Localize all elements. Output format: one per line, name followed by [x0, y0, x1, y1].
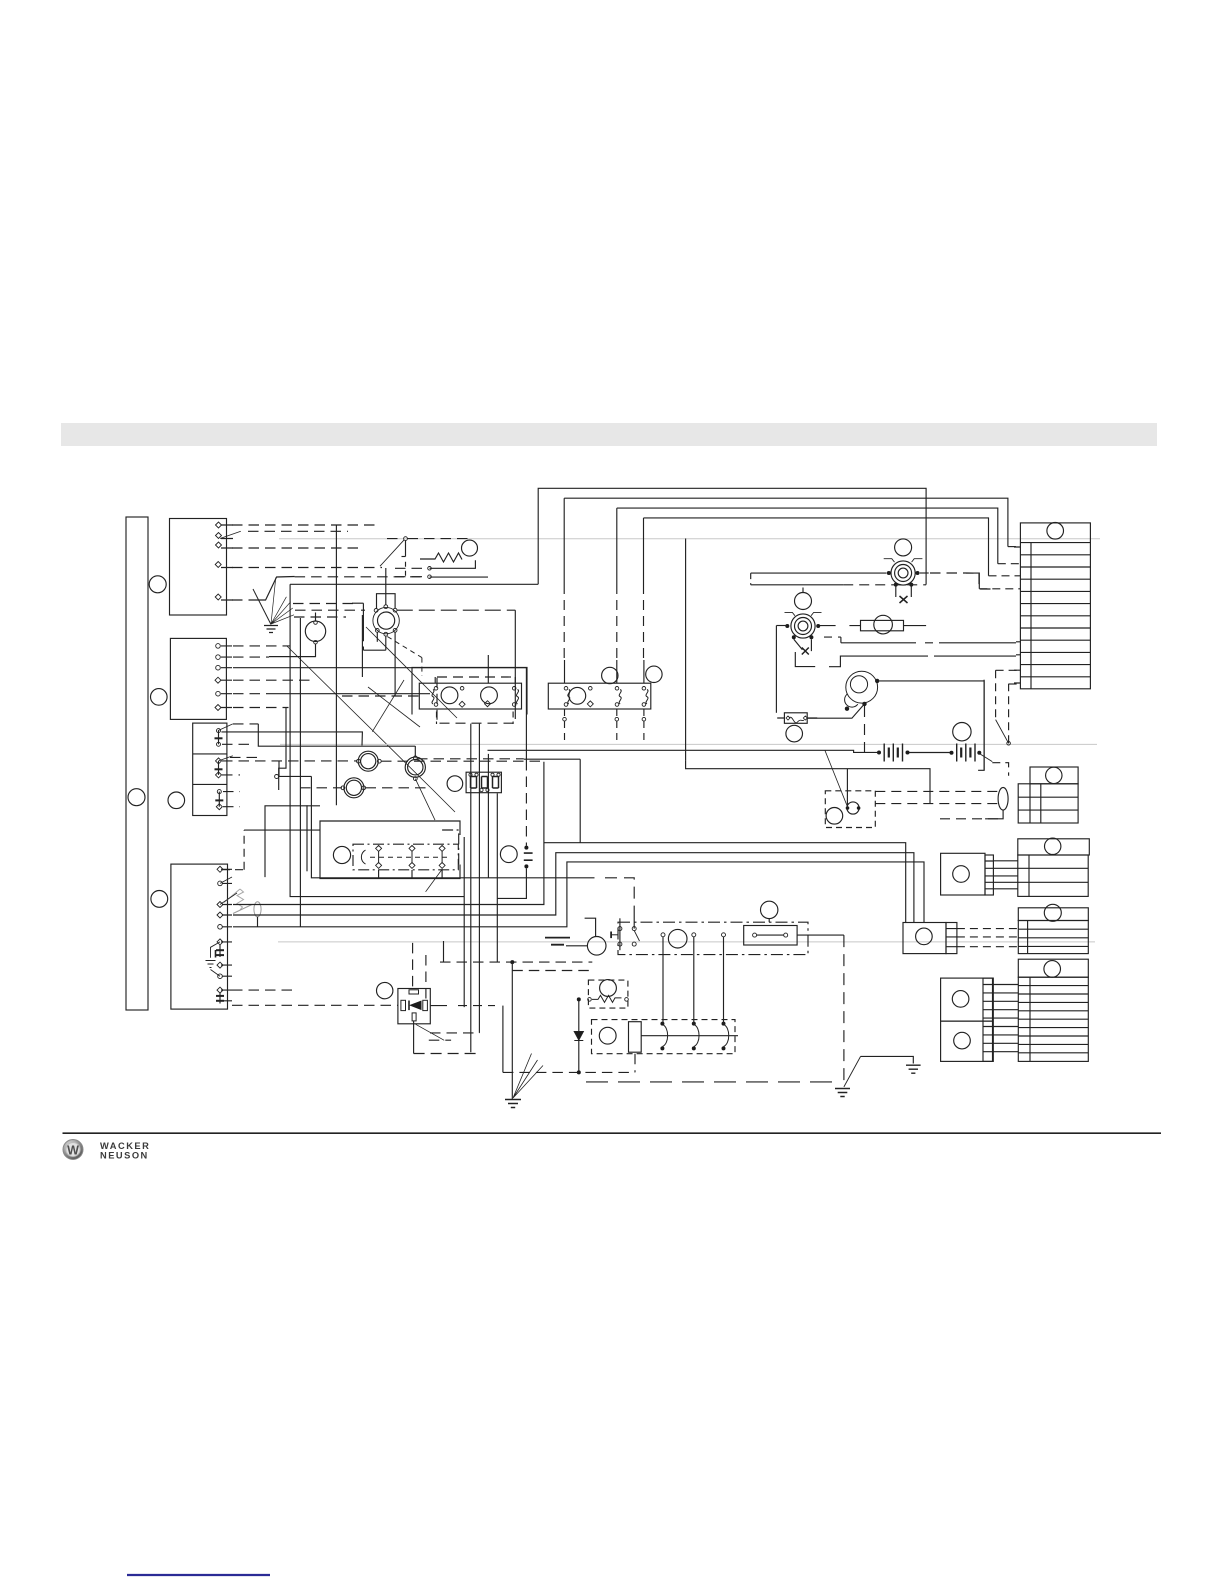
ignition switch PCB (dash-dot): [353, 844, 458, 870]
ground lead G3 riser: [843, 935, 845, 1087]
wire x288 down: [279, 708, 286, 791]
starter switch S: [585, 918, 640, 950]
motor M wires: [807, 681, 984, 770]
thin crossing harness diagonals: [218, 531, 457, 904]
long dashed bus y1082: [586, 1081, 838, 1083]
wire X3 pin1 riser: [222, 830, 320, 870]
motor M: [845, 671, 880, 711]
diode D1: [574, 997, 583, 1074]
relay RA feed dash: [342, 695, 419, 697]
dashed row y962: [440, 960, 592, 970]
relay K output jog: [414, 1021, 480, 1054]
jumper clip at X3: [206, 942, 221, 976]
plug XB left square: [941, 853, 985, 895]
sender SP2 wires: [776, 585, 860, 713]
ignition switch module outline: [320, 821, 460, 879]
wire x984 right: [983, 680, 985, 771]
lamp C7 at relay K: [377, 982, 393, 998]
riser wire x564: [563, 498, 565, 660]
wire y694: [276, 693, 430, 695]
lamp L1: [269, 613, 326, 657]
ground G3: [835, 1089, 850, 1097]
ignition switch contacts: [361, 845, 450, 868]
ground lead x512: [511, 962, 513, 1099]
bus2 y853: [233, 853, 914, 923]
lamp C4: [447, 776, 463, 792]
ground G2 fan: [513, 1054, 543, 1099]
plug XC left square: [903, 923, 946, 954]
dashed row y585: [751, 584, 926, 586]
ground G4: [906, 1065, 921, 1073]
regulator link wires: [503, 1054, 635, 1073]
lamp C6 at resistor: [462, 540, 478, 556]
lamp C9: [953, 723, 971, 741]
mounting hole circle A2: [151, 689, 168, 706]
bottom blue line: [127, 1574, 270, 1576]
mounting hole circle A5: [151, 891, 168, 908]
gray hairline H1: [279, 538, 1100, 540]
box X1 wires: [232, 525, 382, 600]
bus1 y843: [233, 762, 906, 923]
wire rows into XL mid: [1016, 642, 1020, 655]
plug XD top cell: [1018, 959, 1088, 977]
Wacker Neuson logo emblem: [63, 1140, 83, 1160]
wire y584 left: [290, 583, 538, 585]
svg-text:W: W: [67, 1143, 79, 1157]
relay RA outer enclosure: [412, 668, 527, 715]
wire row y641: [824, 637, 1016, 643]
mounting hole circle A3: [128, 789, 145, 806]
wire x362: [362, 615, 515, 677]
flasher F2: [861, 615, 927, 634]
mounting hole circle A4: [168, 792, 185, 809]
wire x336: [265, 526, 336, 878]
bus wire y518: [644, 518, 1021, 576]
stator wires: [663, 937, 724, 1024]
wire y732: [221, 732, 362, 746]
toggle switch SW1: [380, 537, 407, 577]
plug XC top cell: [1018, 904, 1088, 921]
relay K output wire: [431, 1006, 503, 1073]
plug XA top cell: [1030, 767, 1078, 784]
rectifier R2 internals: [599, 1022, 738, 1053]
sender SP1 wires: [751, 573, 991, 589]
sender SP2: [785, 593, 822, 667]
battery B2: [950, 744, 982, 762]
ground G1 fan wires: [271, 577, 294, 624]
module pin diagonal: [426, 869, 443, 892]
ground G2: [505, 1100, 521, 1108]
wire x290 down: [290, 584, 464, 896]
plug A feed rows: [875, 791, 1000, 818]
plug XA body: [1018, 784, 1078, 823]
wire pin5 X1: [256, 577, 421, 601]
alternator box (dash-dot): [618, 922, 808, 954]
riser wire x643: [643, 518, 645, 660]
gray hairline H3: [278, 941, 1095, 943]
junction dot SW2: [1007, 742, 1011, 746]
battery switch lever: [979, 720, 1008, 762]
plug XD body: [1018, 977, 1088, 1061]
relay RB: [548, 660, 662, 740]
Wacker Neuson logo text: [100, 1141, 150, 1161]
alternator excit. internals: [826, 802, 860, 824]
resistor RT dash feeds: [395, 568, 427, 576]
chassis plate symbol: [545, 938, 570, 945]
indicator lamp C1: [357, 751, 382, 771]
corner wire x443: [443, 941, 445, 962]
fan rows wires: [293, 604, 365, 618]
resistor R4 (gray): [224, 889, 244, 910]
lamp C12 at starter switch: [566, 937, 606, 956]
gauge GA top bracket: [377, 568, 396, 609]
plug XC ladder: [946, 923, 957, 954]
key switch lamp C5: [333, 846, 350, 863]
bus wire y488: [538, 488, 926, 584]
footer rule: [63, 1132, 1162, 1134]
module corner bracket: [442, 830, 459, 868]
alternator excit. box (dashed): [825, 791, 875, 828]
alternator feed diagonal: [825, 750, 848, 807]
svg-text:WACKER: WACKER: [100, 1141, 150, 1151]
wire x258 jog: [258, 724, 415, 746]
battery B1: [877, 744, 910, 762]
block XL feed rows: [966, 573, 1020, 589]
wire row y655: [829, 656, 1016, 667]
connector X2: [170, 638, 232, 719]
gray hairline H2: [280, 743, 1097, 745]
ground G1: [253, 589, 278, 633]
plug XD left squares: [941, 978, 993, 1061]
wire y877 to starter: [489, 878, 635, 929]
plug XB ladder: [985, 855, 993, 895]
wire x300: [299, 618, 301, 927]
gauge GA bottom leads: [352, 603, 422, 696]
riser wire x617: [616, 508, 618, 660]
wire y668 bus: [233, 667, 526, 669]
riser x580: [579, 759, 581, 843]
fuse block F1-F3: [466, 772, 501, 793]
svg-text:NEUSON: NEUSON: [100, 1150, 149, 1160]
plug XC dashed links: [957, 929, 1018, 947]
switch bank S1-S3: [193, 723, 227, 815]
bus3 y862: [233, 862, 924, 927]
switch dash wires: [992, 670, 1016, 775]
bus wire y498: [564, 498, 1020, 546]
connector X3: [171, 864, 232, 1009]
gauge GA bracket to relay: [397, 610, 516, 723]
rectifier R2 (dashed box): [592, 1020, 736, 1054]
fusible link FL: [777, 713, 817, 724]
fuse F4 (gray oval): [233, 902, 261, 917]
capacitor CF riser: [525, 668, 527, 846]
grommet oval: [985, 788, 1008, 819]
plug XB top cell: [1018, 838, 1090, 855]
flasher capacitor CF: [500, 846, 532, 869]
resistor RT: [420, 553, 488, 579]
plug XD links: [993, 985, 1018, 1052]
indicator lamp C3: [341, 778, 366, 798]
plug XC body: [1018, 921, 1088, 954]
sender SP1: [884, 539, 923, 603]
wire x279 junction: [275, 761, 312, 779]
ground G4 wire: [844, 1056, 913, 1087]
block XL row stubs: [1014, 547, 1020, 683]
regulator R1 internals: [588, 980, 629, 1003]
capacitor CF lower lead: [497, 868, 526, 898]
terminal bar J0: [126, 517, 148, 1010]
fuse F4 lead: [257, 917, 259, 927]
connector X1: [170, 519, 234, 616]
lamp C1 wire: [381, 759, 580, 761]
lamp C11 above alternator: [761, 901, 778, 922]
battery wires: [488, 750, 951, 752]
wire x685: [686, 539, 930, 807]
plug XB links: [993, 861, 1017, 889]
wire x310: [311, 776, 488, 877]
gauge GA: [373, 605, 399, 636]
bus wire y508: [617, 508, 1021, 564]
ignition module pin stubs: [379, 870, 443, 879]
indicator lamp C2: [405, 756, 425, 780]
lamp C2 stub: [414, 746, 416, 756]
alternator terminals: [661, 933, 726, 937]
relay K: [398, 989, 430, 1024]
alternator inner resistor block: [744, 926, 844, 946]
lamp C8: [786, 725, 803, 742]
wire y538 switch row: [387, 538, 468, 540]
relay RA: [419, 655, 521, 709]
wire y657 lamp feed: [269, 656, 316, 658]
alternator lamp C10: [668, 929, 687, 948]
box X2 wire rows: [222, 646, 357, 807]
relay K feeds: [232, 943, 426, 1005]
harness verticals VB: [464, 724, 497, 1053]
relay RA enclosure stubs: [435, 677, 515, 724]
plug XB body: [1018, 855, 1088, 896]
plug XD ladder: [983, 978, 993, 1061]
header gray bar: [61, 423, 1157, 446]
mounting hole circle A1: [149, 576, 166, 593]
lamp C3 wire: [366, 787, 431, 789]
regulator R1 (dashed box): [588, 980, 628, 1008]
main connector block XL: [1020, 523, 1090, 689]
